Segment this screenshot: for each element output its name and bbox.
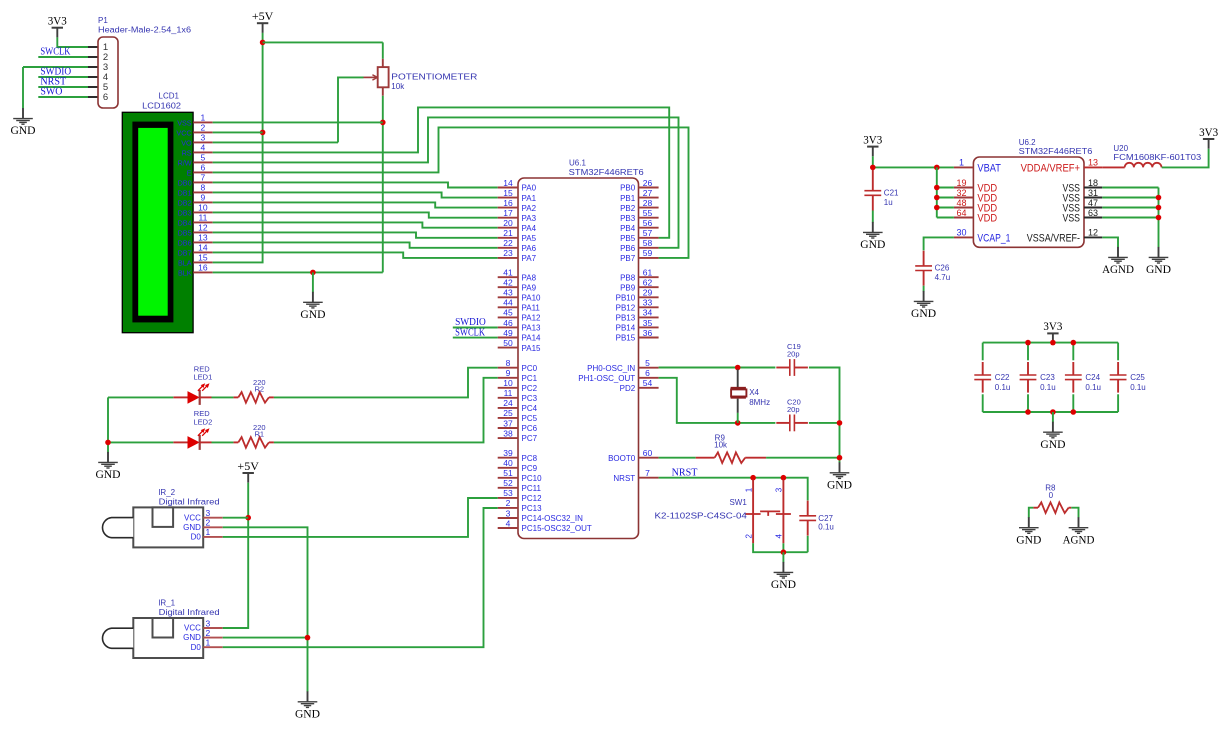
svg-text:3: 3 [774, 487, 783, 492]
svg-text:K2-1102SP-C4SC-04: K2-1102SP-C4SC-04 [655, 511, 748, 520]
svg-text:FCM1608KF-601T03: FCM1608KF-601T03 [1113, 153, 1201, 162]
svg-text:PC14-OSC32_IN: PC14-OSC32_IN [522, 514, 584, 523]
svg-text:17: 17 [503, 208, 513, 218]
svg-text:GND: GND [860, 237, 885, 251]
svg-text:34: 34 [643, 308, 653, 318]
svg-text:PA15: PA15 [522, 344, 542, 353]
svg-text:SWCLK: SWCLK [455, 327, 486, 338]
svg-text:PA10: PA10 [522, 294, 542, 303]
svg-text:13: 13 [198, 233, 208, 243]
svg-text:PC12: PC12 [522, 494, 543, 503]
svg-text:57: 57 [643, 228, 653, 238]
svg-text:2: 2 [201, 123, 206, 133]
svg-text:26: 26 [643, 178, 653, 188]
svg-text:D0: D0 [191, 643, 202, 652]
svg-text:59: 59 [643, 248, 653, 258]
svg-text:GND: GND [1146, 262, 1171, 276]
svg-text:45: 45 [503, 308, 513, 318]
svg-text:6: 6 [103, 92, 108, 103]
svg-text:GND: GND [300, 307, 325, 321]
svg-text:STM32F446RET6: STM32F446RET6 [569, 168, 645, 177]
svg-text:DB1: DB1 [178, 188, 192, 197]
svg-text:PC6: PC6 [522, 424, 538, 433]
svg-text:PC1: PC1 [522, 374, 538, 383]
svg-text:PB6: PB6 [620, 244, 636, 253]
svg-text:48: 48 [956, 198, 966, 208]
svg-text:C26: C26 [935, 264, 950, 273]
svg-text:PB5: PB5 [620, 234, 636, 243]
svg-text:3: 3 [206, 508, 211, 518]
svg-text:PA3: PA3 [522, 214, 537, 223]
svg-text:LED2: LED2 [194, 417, 213, 426]
svg-text:VCC: VCC [184, 624, 201, 633]
svg-text:PC15-OSC32_OUT: PC15-OSC32_OUT [522, 524, 592, 533]
svg-text:0.1u: 0.1u [818, 523, 834, 532]
svg-text:POTENTIOMETER: POTENTIOMETER [391, 72, 477, 81]
svg-text:DB5: DB5 [178, 228, 192, 237]
svg-text:R1: R1 [255, 429, 265, 438]
svg-text:39: 39 [503, 448, 513, 458]
svg-text:C24: C24 [1085, 373, 1100, 382]
svg-text:5: 5 [201, 153, 206, 163]
svg-text:GND: GND [183, 633, 201, 642]
svg-text:12: 12 [1088, 228, 1098, 238]
svg-text:VCAP_1: VCAP_1 [977, 233, 1010, 245]
svg-text:2: 2 [206, 628, 211, 638]
svg-text:8: 8 [201, 183, 206, 193]
svg-text:3V3: 3V3 [48, 16, 67, 28]
svg-text:VO: VO [181, 138, 192, 147]
svg-text:15: 15 [198, 253, 208, 263]
svg-text:0.1u: 0.1u [1040, 383, 1056, 392]
svg-text:49: 49 [503, 328, 513, 338]
svg-text:PC5: PC5 [522, 414, 538, 423]
svg-text:STM32F446RET6: STM32F446RET6 [1019, 147, 1093, 156]
svg-text:22: 22 [503, 238, 513, 248]
svg-text:11: 11 [198, 213, 207, 223]
svg-text:PB12: PB12 [616, 304, 636, 313]
svg-text:PB0: PB0 [620, 184, 636, 193]
svg-text:53: 53 [503, 488, 513, 498]
svg-text:C21: C21 [884, 189, 899, 198]
svg-text:GND: GND [95, 467, 120, 481]
svg-text:5: 5 [645, 358, 650, 368]
svg-text:6: 6 [645, 368, 650, 378]
svg-text:PA8: PA8 [522, 273, 537, 282]
svg-text:PC2: PC2 [522, 384, 538, 393]
svg-text:PA5: PA5 [522, 234, 537, 243]
svg-text:PC7: PC7 [522, 434, 538, 443]
svg-text:19: 19 [956, 178, 966, 188]
svg-text:Header-Male-2.54_1x6: Header-Male-2.54_1x6 [98, 26, 192, 35]
svg-text:2: 2 [744, 534, 753, 539]
svg-text:PB13: PB13 [616, 314, 636, 323]
svg-text:+5V: +5V [237, 461, 259, 473]
svg-text:VCC: VCC [176, 128, 191, 137]
svg-text:11: 11 [504, 388, 513, 398]
svg-text:PB7: PB7 [620, 254, 636, 263]
svg-text:PC4: PC4 [522, 404, 538, 413]
svg-text:PC8: PC8 [522, 454, 538, 463]
svg-text:14: 14 [198, 243, 208, 253]
svg-text:VCC: VCC [184, 513, 201, 522]
svg-text:PB9: PB9 [620, 283, 636, 292]
svg-text:44: 44 [503, 298, 513, 308]
svg-text:Digital Infrared: Digital Infrared [159, 608, 220, 617]
svg-text:1: 1 [206, 638, 211, 648]
svg-text:9: 9 [201, 193, 206, 203]
svg-text:60: 60 [643, 448, 653, 458]
svg-text:PA13: PA13 [522, 324, 542, 333]
svg-text:VDDA/VREF+: VDDA/VREF+ [1021, 163, 1080, 175]
svg-text:10: 10 [503, 378, 513, 388]
svg-text:IR_2: IR_2 [158, 488, 175, 497]
svg-text:10k: 10k [391, 82, 405, 91]
svg-text:DB3: DB3 [178, 208, 192, 217]
svg-text:GND: GND [1016, 532, 1041, 546]
svg-text:PA6: PA6 [522, 244, 537, 253]
svg-text:PC3: PC3 [522, 394, 538, 403]
svg-text:PA0: PA0 [522, 184, 537, 193]
svg-text:GND: GND [1040, 437, 1065, 451]
svg-text:Digital Infrared: Digital Infrared [159, 498, 220, 507]
svg-text:PB14: PB14 [616, 324, 636, 333]
svg-text:15: 15 [503, 188, 513, 198]
svg-text:47: 47 [1088, 198, 1098, 208]
svg-text:AGND: AGND [1102, 262, 1134, 276]
svg-text:X4: X4 [749, 388, 759, 397]
svg-text:38: 38 [503, 428, 513, 438]
svg-text:13: 13 [1088, 158, 1098, 168]
svg-text:7: 7 [201, 173, 206, 183]
svg-text:3: 3 [201, 133, 206, 143]
svg-text:GND: GND [911, 306, 936, 320]
svg-text:20: 20 [503, 218, 513, 228]
svg-text:56: 56 [643, 218, 653, 228]
svg-text:20p: 20p [787, 405, 800, 414]
svg-text:PH1-OSC_OUT: PH1-OSC_OUT [578, 374, 635, 383]
svg-text:GND: GND [827, 477, 852, 491]
svg-text:VSSA/VREF-: VSSA/VREF- [1027, 233, 1080, 245]
svg-text:GND: GND [10, 123, 35, 137]
svg-text:PA1: PA1 [522, 194, 537, 203]
svg-text:63: 63 [1088, 208, 1098, 218]
svg-text:PB2: PB2 [620, 204, 636, 213]
svg-text:NRST: NRST [613, 474, 635, 483]
svg-text:1: 1 [744, 487, 753, 492]
svg-text:C22: C22 [995, 373, 1010, 382]
svg-text:4: 4 [774, 534, 783, 539]
svg-text:GND: GND [295, 706, 320, 720]
svg-text:55: 55 [643, 208, 653, 218]
svg-text:PB8: PB8 [620, 273, 636, 282]
svg-text:DB0: DB0 [178, 178, 192, 187]
svg-text:PB1: PB1 [620, 194, 636, 203]
svg-text:33: 33 [643, 298, 653, 308]
svg-text:42: 42 [503, 278, 513, 288]
svg-text:1: 1 [201, 113, 206, 123]
svg-text:SW1: SW1 [729, 498, 747, 507]
svg-text:1u: 1u [884, 198, 893, 207]
svg-text:25: 25 [503, 408, 513, 418]
svg-text:41: 41 [503, 268, 513, 278]
svg-text:16: 16 [198, 263, 208, 273]
svg-text:+5V: +5V [252, 11, 274, 23]
svg-text:50: 50 [503, 338, 513, 348]
svg-text:R/W: R/W [178, 158, 192, 167]
svg-text:IR_1: IR_1 [158, 599, 175, 608]
svg-text:PA2: PA2 [522, 204, 537, 213]
svg-text:12: 12 [198, 223, 208, 233]
svg-text:D0: D0 [191, 533, 202, 542]
svg-text:LCD1: LCD1 [159, 92, 180, 101]
svg-text:DB2: DB2 [178, 198, 192, 207]
svg-text:PC9: PC9 [522, 464, 538, 473]
svg-text:1: 1 [959, 158, 964, 168]
svg-text:21: 21 [503, 228, 513, 238]
svg-text:U6.1: U6.1 [569, 159, 586, 168]
svg-text:30: 30 [956, 228, 966, 238]
svg-text:3V3: 3V3 [863, 134, 882, 146]
svg-text:1: 1 [206, 527, 211, 537]
svg-text:PB10: PB10 [616, 294, 636, 303]
svg-text:PA14: PA14 [522, 334, 542, 343]
svg-text:PB15: PB15 [616, 334, 636, 343]
svg-text:BOOT0: BOOT0 [608, 454, 636, 463]
svg-text:61: 61 [643, 268, 653, 278]
svg-text:27: 27 [643, 188, 653, 198]
svg-text:C25: C25 [1130, 373, 1145, 382]
svg-text:58: 58 [643, 238, 653, 248]
svg-text:0.1u: 0.1u [1130, 383, 1146, 392]
svg-text:BLK: BLK [178, 268, 192, 277]
svg-text:64: 64 [956, 208, 966, 218]
svg-text:0: 0 [1049, 491, 1054, 500]
svg-text:PA4: PA4 [522, 224, 537, 233]
svg-text:PC11: PC11 [522, 484, 542, 493]
svg-text:29: 29 [643, 288, 653, 298]
svg-text:LED1: LED1 [194, 373, 213, 382]
svg-text:LCD1602: LCD1602 [142, 102, 181, 111]
svg-text:46: 46 [503, 318, 513, 328]
svg-text:4: 4 [201, 143, 206, 153]
svg-text:9: 9 [506, 368, 511, 378]
svg-text:3: 3 [206, 618, 211, 628]
svg-text:P1: P1 [98, 16, 108, 25]
svg-text:10: 10 [198, 203, 208, 213]
svg-text:BLA: BLA [178, 258, 192, 267]
svg-text:3V3: 3V3 [1199, 127, 1218, 139]
svg-text:62: 62 [643, 278, 653, 288]
svg-text:VSS: VSS [177, 118, 192, 127]
svg-text:DB7: DB7 [178, 248, 192, 257]
svg-text:28: 28 [643, 198, 653, 208]
svg-text:6: 6 [201, 163, 206, 173]
svg-text:31: 31 [1088, 188, 1098, 198]
svg-text:18: 18 [1088, 178, 1098, 188]
svg-text:NRST: NRST [672, 467, 698, 478]
svg-text:24: 24 [503, 398, 513, 408]
svg-text:PA11: PA11 [522, 304, 541, 313]
svg-text:PC0: PC0 [522, 364, 538, 373]
svg-text:C23: C23 [1040, 373, 1055, 382]
svg-text:4: 4 [506, 518, 511, 528]
svg-text:10k: 10k [714, 441, 728, 450]
svg-text:PH0-OSC_IN: PH0-OSC_IN [587, 364, 635, 373]
svg-text:3V3: 3V3 [1043, 321, 1062, 333]
svg-text:R2: R2 [255, 384, 265, 393]
svg-text:54: 54 [643, 378, 653, 388]
svg-text:SWCLK: SWCLK [40, 47, 71, 58]
svg-text:DB4: DB4 [178, 218, 192, 227]
svg-text:2: 2 [206, 518, 211, 528]
svg-text:DB6: DB6 [178, 238, 192, 247]
svg-text:14: 14 [503, 178, 513, 188]
svg-text:VBAT: VBAT [977, 163, 1001, 175]
svg-text:8: 8 [506, 358, 511, 368]
svg-text:PA7: PA7 [522, 254, 537, 263]
svg-text:35: 35 [643, 318, 653, 328]
svg-text:PB4: PB4 [620, 224, 636, 233]
svg-text:PD2: PD2 [620, 384, 636, 393]
svg-text:32: 32 [956, 188, 966, 198]
svg-text:40: 40 [503, 458, 513, 468]
svg-text:SWO: SWO [40, 87, 62, 98]
svg-text:U6.2: U6.2 [1019, 138, 1036, 147]
svg-text:8MHz: 8MHz [749, 398, 770, 407]
svg-text:PC10: PC10 [522, 474, 543, 483]
svg-text:43: 43 [503, 288, 513, 298]
svg-text:PA9: PA9 [522, 283, 537, 292]
svg-text:E: E [187, 168, 192, 177]
svg-text:0.1u: 0.1u [1085, 383, 1101, 392]
svg-text:51: 51 [503, 468, 513, 478]
svg-text:20p: 20p [787, 350, 800, 359]
svg-text:4.7u: 4.7u [935, 273, 951, 282]
svg-text:PB3: PB3 [620, 214, 636, 223]
svg-text:16: 16 [503, 198, 513, 208]
svg-text:0.1u: 0.1u [995, 383, 1011, 392]
svg-text:37: 37 [503, 418, 513, 428]
svg-text:52: 52 [503, 478, 513, 488]
svg-text:2: 2 [506, 498, 511, 508]
svg-text:U20: U20 [1113, 144, 1128, 153]
svg-text:3: 3 [506, 508, 511, 518]
svg-text:VDD: VDD [977, 213, 997, 225]
svg-text:23: 23 [503, 248, 513, 258]
svg-text:36: 36 [643, 328, 653, 338]
svg-text:GND: GND [183, 523, 201, 532]
svg-text:7: 7 [645, 468, 650, 478]
svg-text:PA12: PA12 [522, 314, 542, 323]
svg-text:RS: RS [182, 148, 192, 157]
svg-text:GND: GND [771, 577, 796, 591]
svg-text:AGND: AGND [1063, 532, 1095, 546]
svg-text:VSS: VSS [1063, 213, 1081, 225]
svg-text:PC13: PC13 [522, 504, 543, 513]
